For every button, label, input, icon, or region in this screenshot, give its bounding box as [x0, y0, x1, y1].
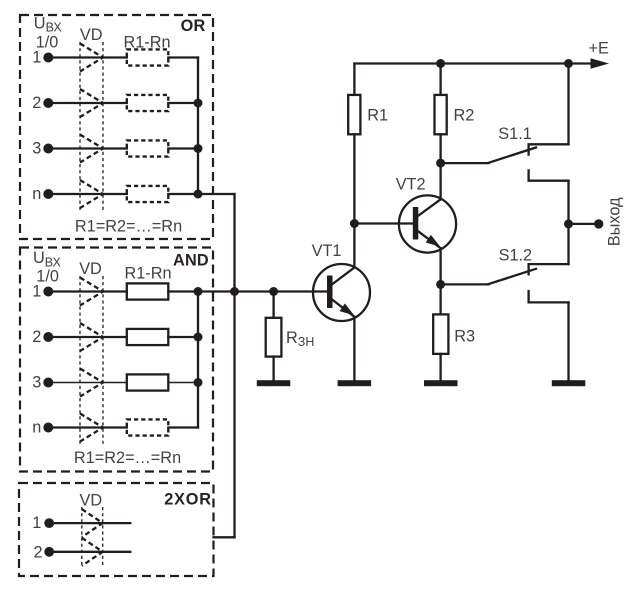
- diode VD3 (AND row 3): [80, 369, 103, 397]
- svg-text:VT1: VT1: [312, 242, 342, 260]
- ground (under R3): [424, 380, 458, 386]
- svg-text:R3: R3: [454, 327, 475, 345]
- svg-text:1: 1: [32, 49, 41, 67]
- svg-text:2XOR: 2XOR: [164, 491, 212, 509]
- wire OR output exit: [198, 193, 235, 195]
- wire VT2 emitter down: [439, 248, 441, 314]
- junction output node: [564, 219, 573, 228]
- junction AND bus row1: [194, 287, 203, 296]
- wire Rzn top lead: [272, 292, 274, 318]
- diode VD1 (OR row 1): [80, 44, 103, 72]
- svg-text:S1.1: S1.1: [498, 125, 532, 143]
- wire OR row3 to bus: [168, 147, 198, 149]
- diode VD2 (AND row 2): [80, 323, 103, 351]
- wire OR row3 input: [48, 147, 127, 149]
- wire AND row n to bus: [168, 426, 198, 428]
- wire +E rail: [354, 62, 591, 64]
- junction AND bus row2: [194, 333, 203, 342]
- svg-text:VT2: VT2: [396, 175, 426, 193]
- wire S1.2 pole: [441, 283, 489, 285]
- diode VDn (OR row n): [80, 180, 103, 208]
- svg-text:OR: OR: [181, 17, 206, 35]
- junction VT2 emitter / S1.2 pole: [436, 280, 445, 289]
- resistor R1: [348, 95, 360, 134]
- wire OR row1 to bus: [168, 56, 198, 58]
- wire OR row2 to bus: [168, 102, 198, 104]
- svg-text:1: 1: [32, 514, 41, 532]
- wire AND row2 to bus: [168, 336, 198, 338]
- wire 2XOR output stub: [214, 536, 235, 538]
- svg-text:R2: R2: [454, 107, 475, 125]
- wire OR row1 input: [48, 56, 127, 58]
- svg-text:VD: VD: [79, 492, 102, 510]
- wire R2 top lead: [439, 64, 441, 95]
- diode VD1 (2XOR row 1): [82, 509, 103, 537]
- switch S1.1 blade: [489, 148, 537, 163]
- svg-text:2: 2: [32, 328, 41, 346]
- ground (under VT1 emitter): [338, 380, 372, 386]
- junction Rzn tap: [269, 287, 278, 296]
- junction AND bus row3: [194, 378, 203, 387]
- wire R2 bottom to VT2 collector: [439, 134, 441, 199]
- svg-text:VD: VD: [80, 26, 103, 44]
- svg-text:R1-Rn: R1-Rn: [124, 264, 171, 282]
- diode VD2 (OR row 2): [80, 89, 103, 117]
- wire OR row n to bus: [168, 193, 198, 195]
- svg-text:S1.2: S1.2: [499, 247, 532, 265]
- switch S1.2 blade: [489, 269, 537, 284]
- VD cathode rails (AND, dashed verticals): [79, 276, 81, 444]
- VT1 emitter arrow: [340, 304, 355, 316]
- svg-text:3: 3: [32, 140, 41, 158]
- resistor R1 (AND): [127, 283, 169, 299]
- VT2 emitter diagonal: [417, 231, 440, 249]
- svg-text:UВХ: UВХ: [33, 249, 62, 269]
- ground (under S1.2): [552, 380, 586, 386]
- svg-text:AND: AND: [173, 252, 209, 270]
- wire S1.1 pole: [441, 162, 489, 164]
- diode VDn (AND row n): [80, 414, 103, 442]
- svg-text:VD: VD: [79, 260, 102, 278]
- junction OR bus row2: [194, 99, 203, 108]
- wire 2XOR row2: [49, 551, 130, 553]
- AND block dashed enclosure: [20, 248, 213, 472]
- svg-text:3: 3: [32, 374, 41, 392]
- diode VD2 (2XOR row 2): [82, 538, 103, 566]
- diode VD3 (OR row 3): [80, 135, 103, 163]
- wire Rzn bottom lead: [272, 357, 274, 381]
- wire +E drop to S1.1 contact: [567, 64, 569, 145]
- svg-text:n: n: [32, 185, 41, 203]
- svg-text:UВХ: UВХ: [34, 15, 63, 35]
- +E arrow: [591, 58, 610, 69]
- junction OR bus row n: [194, 190, 203, 199]
- wire AND row1 to bus: [168, 290, 198, 292]
- AND output bus vertical: [197, 292, 199, 428]
- resistor R1 (OR, dashed): [127, 49, 169, 65]
- wire AND row n input: [48, 426, 127, 428]
- wire S1.2 contact to ground: [567, 302, 569, 380]
- junction R2 / S1.1 pole: [436, 159, 445, 168]
- S1.1 contact to +E: [529, 144, 569, 154]
- diode VD1 (AND row 1): [80, 278, 103, 306]
- resistor R2: [435, 95, 447, 134]
- VT2 base wire: [354, 222, 412, 224]
- wire R3 bottom lead: [439, 354, 441, 380]
- OR block dashed enclosure: [20, 15, 213, 239]
- svg-text:R1: R1: [367, 107, 388, 125]
- junction OR bus row3: [194, 144, 203, 153]
- svg-text:+E: +E: [589, 39, 610, 57]
- wire common output bus (vertical x=234.5): [233, 194, 235, 537]
- resistor R2 (OR, dashed): [127, 95, 169, 111]
- wire OR row2 input: [48, 102, 127, 104]
- OR output bus vertical: [197, 58, 199, 195]
- junction bus / AND output: [230, 287, 239, 296]
- VT1 emitter diagonal: [332, 299, 355, 317]
- ground (under Rзн): [257, 380, 291, 386]
- wire output stub: [569, 223, 599, 225]
- wire 2XOR row1: [49, 522, 130, 524]
- svg-text:n: n: [32, 419, 41, 437]
- wire VT1 collector up: [353, 134, 355, 267]
- wire AND row2 input: [48, 336, 127, 338]
- wire node A to VT1 base: [198, 290, 327, 292]
- junction rail/S1.1: [564, 59, 573, 68]
- VD cathode rails (OR, dashed verticals): [79, 42, 81, 210]
- resistor Rзн: [266, 318, 282, 357]
- resistor R3: [433, 314, 448, 354]
- svg-text:R1=R2=…=Rn: R1=R2=…=Rn: [75, 218, 182, 236]
- svg-text:Выход: Выход: [606, 197, 624, 246]
- S1.2 upper contact (to output): [529, 264, 569, 274]
- VT2 collector diagonal: [417, 199, 440, 216]
- resistor R2 (AND): [127, 329, 169, 345]
- wire VT1 emitter down: [353, 317, 355, 380]
- S1.1 lower contact (to output): [529, 170, 569, 180]
- 2XOR block dashed enclosure: [19, 483, 214, 576]
- VT1 collector diagonal: [332, 268, 355, 285]
- svg-text:RЗН: RЗН: [286, 329, 314, 349]
- wire AND row1 input: [48, 290, 127, 292]
- resistor R3 (OR, dashed): [127, 140, 169, 156]
- wire AND row3 input (thin): [48, 382, 127, 384]
- svg-text:1: 1: [32, 283, 41, 301]
- resistor R3 (AND): [127, 374, 169, 390]
- junction VT2 base tap: [350, 219, 359, 228]
- S1.2 lower contact (to ground): [529, 291, 569, 302]
- output terminal: [594, 219, 603, 228]
- wire OR row n input: [48, 193, 127, 195]
- svg-text:2: 2: [32, 94, 41, 112]
- wire AND row3 to bus (thin): [168, 382, 198, 384]
- VD cathode rails (2XOR, dashed verticals): [81, 507, 83, 567]
- svg-text:R1=R2=…=Rn: R1=R2=…=Rn: [74, 449, 181, 467]
- svg-text:2: 2: [33, 544, 42, 562]
- VT1 base bar: [327, 276, 333, 309]
- wire R1 top lead: [353, 64, 355, 95]
- wire output bus vertical (contacts 2-3): [567, 181, 569, 264]
- resistor Rn (OR, dashed): [127, 186, 169, 202]
- junction rail/R2: [436, 59, 445, 68]
- resistor Rn (AND, dashed): [127, 419, 169, 435]
- VT2 base bar: [413, 207, 419, 240]
- VT2 emitter arrow: [426, 235, 441, 247]
